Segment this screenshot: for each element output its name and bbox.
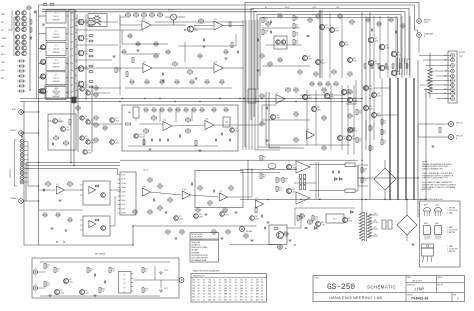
transistor Q72 [78,50,84,56]
power transistor Q36 [368,60,373,65]
module A3 [83,181,110,205]
svg-text:Q33: Q33 [374,38,377,40]
svg-text:528: 528 [208,282,211,284]
svg-text:R100: R100 [68,181,72,183]
svg-text:TITLE: TITLE [315,278,319,280]
resistor R100 [68,183,73,185]
transistor Q74 [78,81,84,87]
svg-text:C1815: C1815 [58,121,62,123]
title block divider rh2 [406,292,465,294]
resistor R82 [186,119,191,121]
svg-text:P3: P3 [124,283,126,285]
wire rail C [389,78,391,200]
svg-text:VR 4.7k: VR 4.7k [143,170,149,172]
svg-text:4.7k: 4.7k [118,71,121,73]
wire band v1 [121,30,123,44]
wire stub d [365,120,367,150]
equalizer IC U8 [120,172,136,215]
svg-text:898: 898 [224,294,227,296]
wire rail E [405,78,407,200]
svg-text:R92: R92 [169,197,172,199]
resistor R48 [266,23,270,25]
svg-text:25: 25 [198,288,200,290]
resistor R1 [19,60,23,62]
svg-text:18: 18 [198,291,200,293]
svg-text:R129: R129 [212,229,216,231]
svg-text:36V: 36V [374,220,377,222]
wire output verticals [365,16,367,78]
svg-text:AMP PWR.: AMP PWR. [422,188,432,191]
resistor R201 [56,214,60,216]
wire lc lattice v1 [315,162,317,200]
transistor Q9 [15,35,19,39]
resistor R195 [260,174,262,179]
svg-text:C1815: C1815 [335,31,339,33]
resistor R41 [293,24,295,29]
resistor R111 [260,95,264,97]
wire right rail B [369,12,371,200]
capacitor C5 [257,39,259,42]
capacitor C31 [159,139,161,142]
svg-text:Q26: Q26 [88,150,91,152]
resistor R211 [377,23,381,25]
svg-text:R8: R8 [55,135,57,137]
svg-text:Q53: Q53 [292,189,295,191]
svg-text:L-CH: L-CH [70,56,73,58]
wire lc lattice v2 [318,162,320,200]
svg-text:C1815: C1815 [139,136,143,138]
svg-text:84: 84 [245,279,247,281]
svg-text:R43: R43 [296,41,299,43]
svg-text:560: 560 [279,62,282,64]
svg-text:91: 91 [245,288,247,290]
svg-text:R163: R163 [168,107,172,109]
svg-text:600: 600 [256,296,259,298]
wire eq bus 2 [26,165,120,167]
svg-text:DESIGN BY: DESIGN BY [407,284,415,286]
resistor R85 [195,141,197,146]
wire protection bus [295,207,355,209]
wire spk feed R [418,136,449,138]
svg-text:C1815: C1815 [179,218,183,220]
resistor R185 [262,18,264,23]
svg-text:R102: R102 [294,87,298,89]
wire a3 a4 link [110,189,121,191]
svg-text:Q78: Q78 [115,118,118,120]
svg-text:474: 474 [240,279,243,281]
svg-text:4k Hz: 4k Hz [121,204,125,206]
resistor R219 [361,178,363,183]
resistor R34 [154,43,158,45]
svg-text:R205: R205 [148,209,152,211]
resistor R8 [54,137,59,139]
connector blob CN12 [72,97,77,103]
wire rc feedback loop 2 [269,92,304,148]
svg-text:C1815: C1815 [377,116,381,118]
svg-text:22: 22 [261,288,263,290]
emitter resistor R115 [300,174,302,179]
svg-text:CN9 SPK SEL OUT FILTER: CN9 SPK SEL OUT FILTER [191,255,208,257]
terminal TB1-1 [451,54,455,58]
resistor R54 [348,73,352,75]
wire link h5 [76,59,112,61]
svg-text:4558-OP: 4558-OP [53,78,59,80]
transistor Q32 [316,60,321,65]
svg-text:C1815: C1815 [115,120,119,122]
svg-text:Q52: Q52 [292,165,295,167]
resistor R70 [381,120,383,125]
wire rail H [425,88,427,200]
svg-text:95: 95 [198,299,200,301]
svg-text:4558-OP: 4558-OP [53,49,59,51]
svg-text:R218: R218 [364,169,368,171]
ground G23 mic [160,290,163,293]
resistor R162 [160,109,164,111]
svg-text:SCHEMATIC: SCHEMATIC [367,284,396,289]
svg-text:36V: 36V [374,234,377,236]
svg-text:150: 150 [145,271,148,273]
svg-text:1k: 1k [55,140,57,142]
svg-text:Q30: Q30 [345,42,348,44]
terminal TB1-6 [451,79,455,83]
svg-text:125Hz: 125Hz [121,183,126,185]
svg-text:R13: R13 [95,115,98,117]
transistor Q50 [338,136,343,141]
svg-text:4.7k: 4.7k [159,17,162,19]
ground G6 [256,69,259,71]
svg-text:4.7k: 4.7k [181,234,184,236]
svg-text:19: 19 [203,299,205,301]
output device Q55 [296,192,310,204]
wire mic mid rail [38,271,45,273]
transistor Q45 [312,107,317,112]
svg-text:608: 608 [224,291,227,293]
resistor R188 [278,59,282,61]
wire feedback bus W3 [251,9,409,121]
svg-text:CN2 CH-2 PHONO: CN2 CH-2 PHONO [191,237,203,239]
wire signal bus upper [20,98,362,100]
svg-text:684: 684 [240,288,243,290]
resistor R148 [142,288,144,293]
terminal TB1-10 [451,97,455,101]
resistor R212 [389,19,393,21]
svg-text:R83: R83 [187,128,190,130]
resistor R29 [132,58,134,63]
svg-text:81: 81 [214,299,216,301]
svg-text:R108: R108 [350,127,354,129]
svg-text:Q45: Q45 [317,107,320,109]
wire rc lattice h1 [300,94,345,96]
svg-text:1.2k: 1.2k [47,186,50,188]
transistor Q62 [64,279,69,284]
svg-text:560: 560 [209,205,212,207]
svg-text:IC-1: IC-1 [55,13,58,15]
relay RL6 [46,87,66,100]
svg-text:33k: 33k [359,141,362,143]
power transistor Q37 [379,65,384,70]
svg-text:R130: R130 [226,229,230,231]
svg-text:MON: MON [1,70,5,72]
resistor R5 [19,80,23,82]
transistor Q70 [78,19,84,25]
svg-text:48: 48 [245,294,247,296]
svg-text:L-CH: L-CH [70,77,73,79]
svg-text:SPK OUT: SPK OUT [456,123,463,125]
resistor R130 [226,231,230,233]
svg-text:100: 100 [384,143,387,145]
svg-text:50: 50 [229,299,231,301]
svg-text:84: 84 [261,299,263,301]
svg-text:Q62: Q62 [69,279,72,281]
svg-text:R217: R217 [359,139,363,141]
wire bottom border [24,244,133,246]
svg-text:23: 23 [229,288,231,290]
power transistor Q34 [379,44,384,49]
wire power supply bus [240,199,426,201]
resistor R6 [19,85,23,87]
svg-text:680: 680 [90,271,93,273]
svg-text:B+: B+ [265,7,267,9]
svg-text:IC4b: IC4b [182,189,185,191]
svg-text:Q27: Q27 [325,25,328,27]
svg-text:Q50: Q50 [343,136,346,138]
capacitor C7 [179,135,181,138]
ground G22 mic [160,272,163,275]
transistor Q60 [250,216,255,221]
svg-text:R172: R172 [160,79,164,81]
power transistor Q33 [368,37,373,42]
resistor Q73R1 [89,65,93,67]
ground G1 [202,45,205,47]
svg-text:R81: R81 [153,115,156,117]
svg-text:81: 81 [214,288,216,290]
ground G28 [250,239,253,241]
capacitor C33 [215,139,217,142]
resistor Q72R2 [89,55,93,57]
svg-text:R73: R73 [372,127,375,129]
resistor R184 [30,28,32,32]
svg-text:R203: R203 [103,125,107,127]
svg-text:Q24: Q24 [85,136,88,138]
resistor R83 [186,130,191,132]
ground G8 [148,148,151,150]
resistor R22 [142,14,147,16]
resistor R181 [43,4,47,6]
svg-text:29: 29 [198,279,200,281]
wire rc lattice h3 [300,144,350,146]
transistor Q13 [15,46,19,50]
svg-text:R104: R104 [322,87,326,89]
svg-text:100k: 100k [166,54,169,56]
wire RL4 input [39,62,47,64]
svg-text:560: 560 [95,127,98,129]
svg-text:FREQUENCY Hz: FREQUENCY Hz [193,276,205,278]
resistor R73 [369,126,371,131]
switch contact SW1-5 [20,158,24,162]
resistor R167 [200,109,204,111]
wire tone h5 [128,145,218,147]
resistor R75 [439,128,441,133]
op-amp U16 [306,131,314,139]
svg-text:80: 80 [229,282,231,284]
svg-text:28: 28 [261,285,263,287]
svg-text:160: 160 [240,282,243,284]
svg-text:C1815: C1815 [325,28,329,30]
svg-text:100: 100 [213,234,216,236]
resistor R7 [19,90,23,92]
svg-text:766: 766 [208,279,211,281]
svg-text:Q44: Q44 [308,95,311,97]
svg-text:22k: 22k [349,76,352,78]
svg-text:8.2k: 8.2k [351,24,354,26]
svg-text:47k: 47k [327,86,330,88]
svg-text:Q57: Q57 [179,216,182,218]
wire strip rail b [85,14,87,99]
resistor R9 [64,142,69,144]
svg-text:IC3a: IC3a [163,120,166,122]
svg-text:27: 27 [245,285,247,287]
op-amp U11 [219,193,227,201]
wire preamp rail [77,85,79,152]
svg-text:619: 619 [256,279,259,281]
svg-text:Q36: Q36 [374,61,377,63]
svg-text:20: 20 [235,294,237,296]
resistor R44 [308,19,312,21]
wire under row [125,87,232,89]
svg-text:8.2k: 8.2k [155,58,158,60]
wire tone v2 [175,108,177,122]
svg-text:328: 328 [256,282,259,284]
svg-text:47k: 47k [169,202,172,204]
svg-text:97: 97 [229,291,231,293]
svg-text:100: 100 [200,23,203,25]
svg-text:688: 688 [240,294,243,296]
svg-text:2.2k: 2.2k [95,120,98,122]
svg-text:2.2k: 2.2k [199,190,202,192]
relay RL8 [248,89,256,103]
svg-text:C1815: C1815 [348,220,352,222]
resistor R20 [126,14,131,16]
svg-text:40: 40 [219,282,221,284]
svg-text:R160: R160 [144,107,148,109]
capacitor C6 [307,35,310,37]
svg-text:R111: R111 [260,93,263,95]
resistor R132 [284,233,288,235]
svg-text:L-CH: L-CH [70,34,73,36]
transistor Q11 [15,40,19,44]
svg-text:C1815: C1815 [377,96,381,98]
resistor Q74R1 [89,81,93,83]
svg-text:78: 78 [235,291,237,293]
legend box [190,233,219,263]
transistor Q68 [348,128,353,133]
wire mic bottom rail [40,295,160,297]
svg-text:L-CH: L-CH [70,41,73,43]
svg-text:560: 560 [296,43,299,45]
terminal TB1-7 [451,83,455,87]
svg-text:Q19: Q19 [44,89,47,91]
svg-text:500Hz: 500Hz [121,191,126,193]
svg-text:161: 161 [208,291,211,293]
svg-text:33k: 33k [159,210,162,212]
svg-text:285: 285 [224,288,227,290]
svg-text:140: 140 [192,299,195,301]
svg-text:560: 560 [295,92,298,94]
op-amp U9 [142,188,150,196]
dual transistor pack U5 [274,36,287,49]
svg-text:MUTE CTL: MUTE CTL [53,91,61,93]
title block [313,276,465,302]
transistor QR4 [40,59,45,64]
svg-text:250Hz: 250Hz [121,187,126,189]
svg-text:P1: P1 [124,275,126,277]
svg-text:Q56: Q56 [348,218,351,220]
resistor R15 [94,139,98,141]
resistor R192 [326,83,330,85]
resistor R131 [244,235,248,237]
svg-text:IC9: IC9 [255,198,258,200]
wire eq bus 3 [26,168,118,170]
resistor R31 [231,43,233,48]
resistor R14 [94,124,98,126]
svg-text:22k: 22k [189,74,192,76]
resistor R40 [293,16,295,21]
resistor R218 [361,168,363,173]
svg-text:R71: R71 [384,131,387,133]
svg-text:R187: R187 [278,13,282,15]
svg-text:TR & IC CONFIGURATIONS: TR & IC CONFIGURATIONS [420,198,444,201]
wire u2 in [173,20,175,25]
svg-text:IC2a: IC2a [143,62,146,64]
resistor R36 [166,51,170,53]
wire RL2 output [66,33,68,35]
transistor QR3 [40,45,45,50]
svg-text:C1815: C1815 [369,89,373,91]
wire stage verticals [319,10,321,78]
transistor Q71 [78,35,84,41]
capacitor C41 [338,171,340,174]
svg-text:D669: D669 [435,223,439,225]
svg-text:64: 64 [235,282,237,284]
op-amp U15 servo [255,200,263,208]
svg-text:R47: R47 [351,19,354,21]
svg-text:33k: 33k [323,92,326,94]
svg-text:330: 330 [265,21,268,23]
wire cluster link [13,17,15,56]
op-amp U6 [163,122,172,131]
capacitor C44 [305,227,308,229]
wire rc verticals [242,20,244,150]
svg-text:C1815: C1815 [84,85,88,87]
svg-text:48: 48 [198,294,200,296]
emitter resistor R119 [300,185,302,190]
wire RL6 output [66,92,68,94]
transistor Q2 [22,11,26,15]
op-amp U7 [205,121,214,130]
svg-text:4.7k: 4.7k [323,150,326,152]
svg-text:10k: 10k [44,217,47,219]
svg-text:PHONES: PHONES [246,231,252,233]
ground G15 [266,221,269,223]
svg-text:10k: 10k [295,142,298,144]
svg-text:R174: R174 [190,79,194,81]
resistor R182 [50,4,54,6]
svg-text:IC7: IC7 [276,93,279,95]
resistor R80 [144,130,149,132]
wire relay bus 2 [70,12,72,163]
svg-text:PHONO: PHONO [10,130,17,132]
wire RL1 output [66,15,68,17]
